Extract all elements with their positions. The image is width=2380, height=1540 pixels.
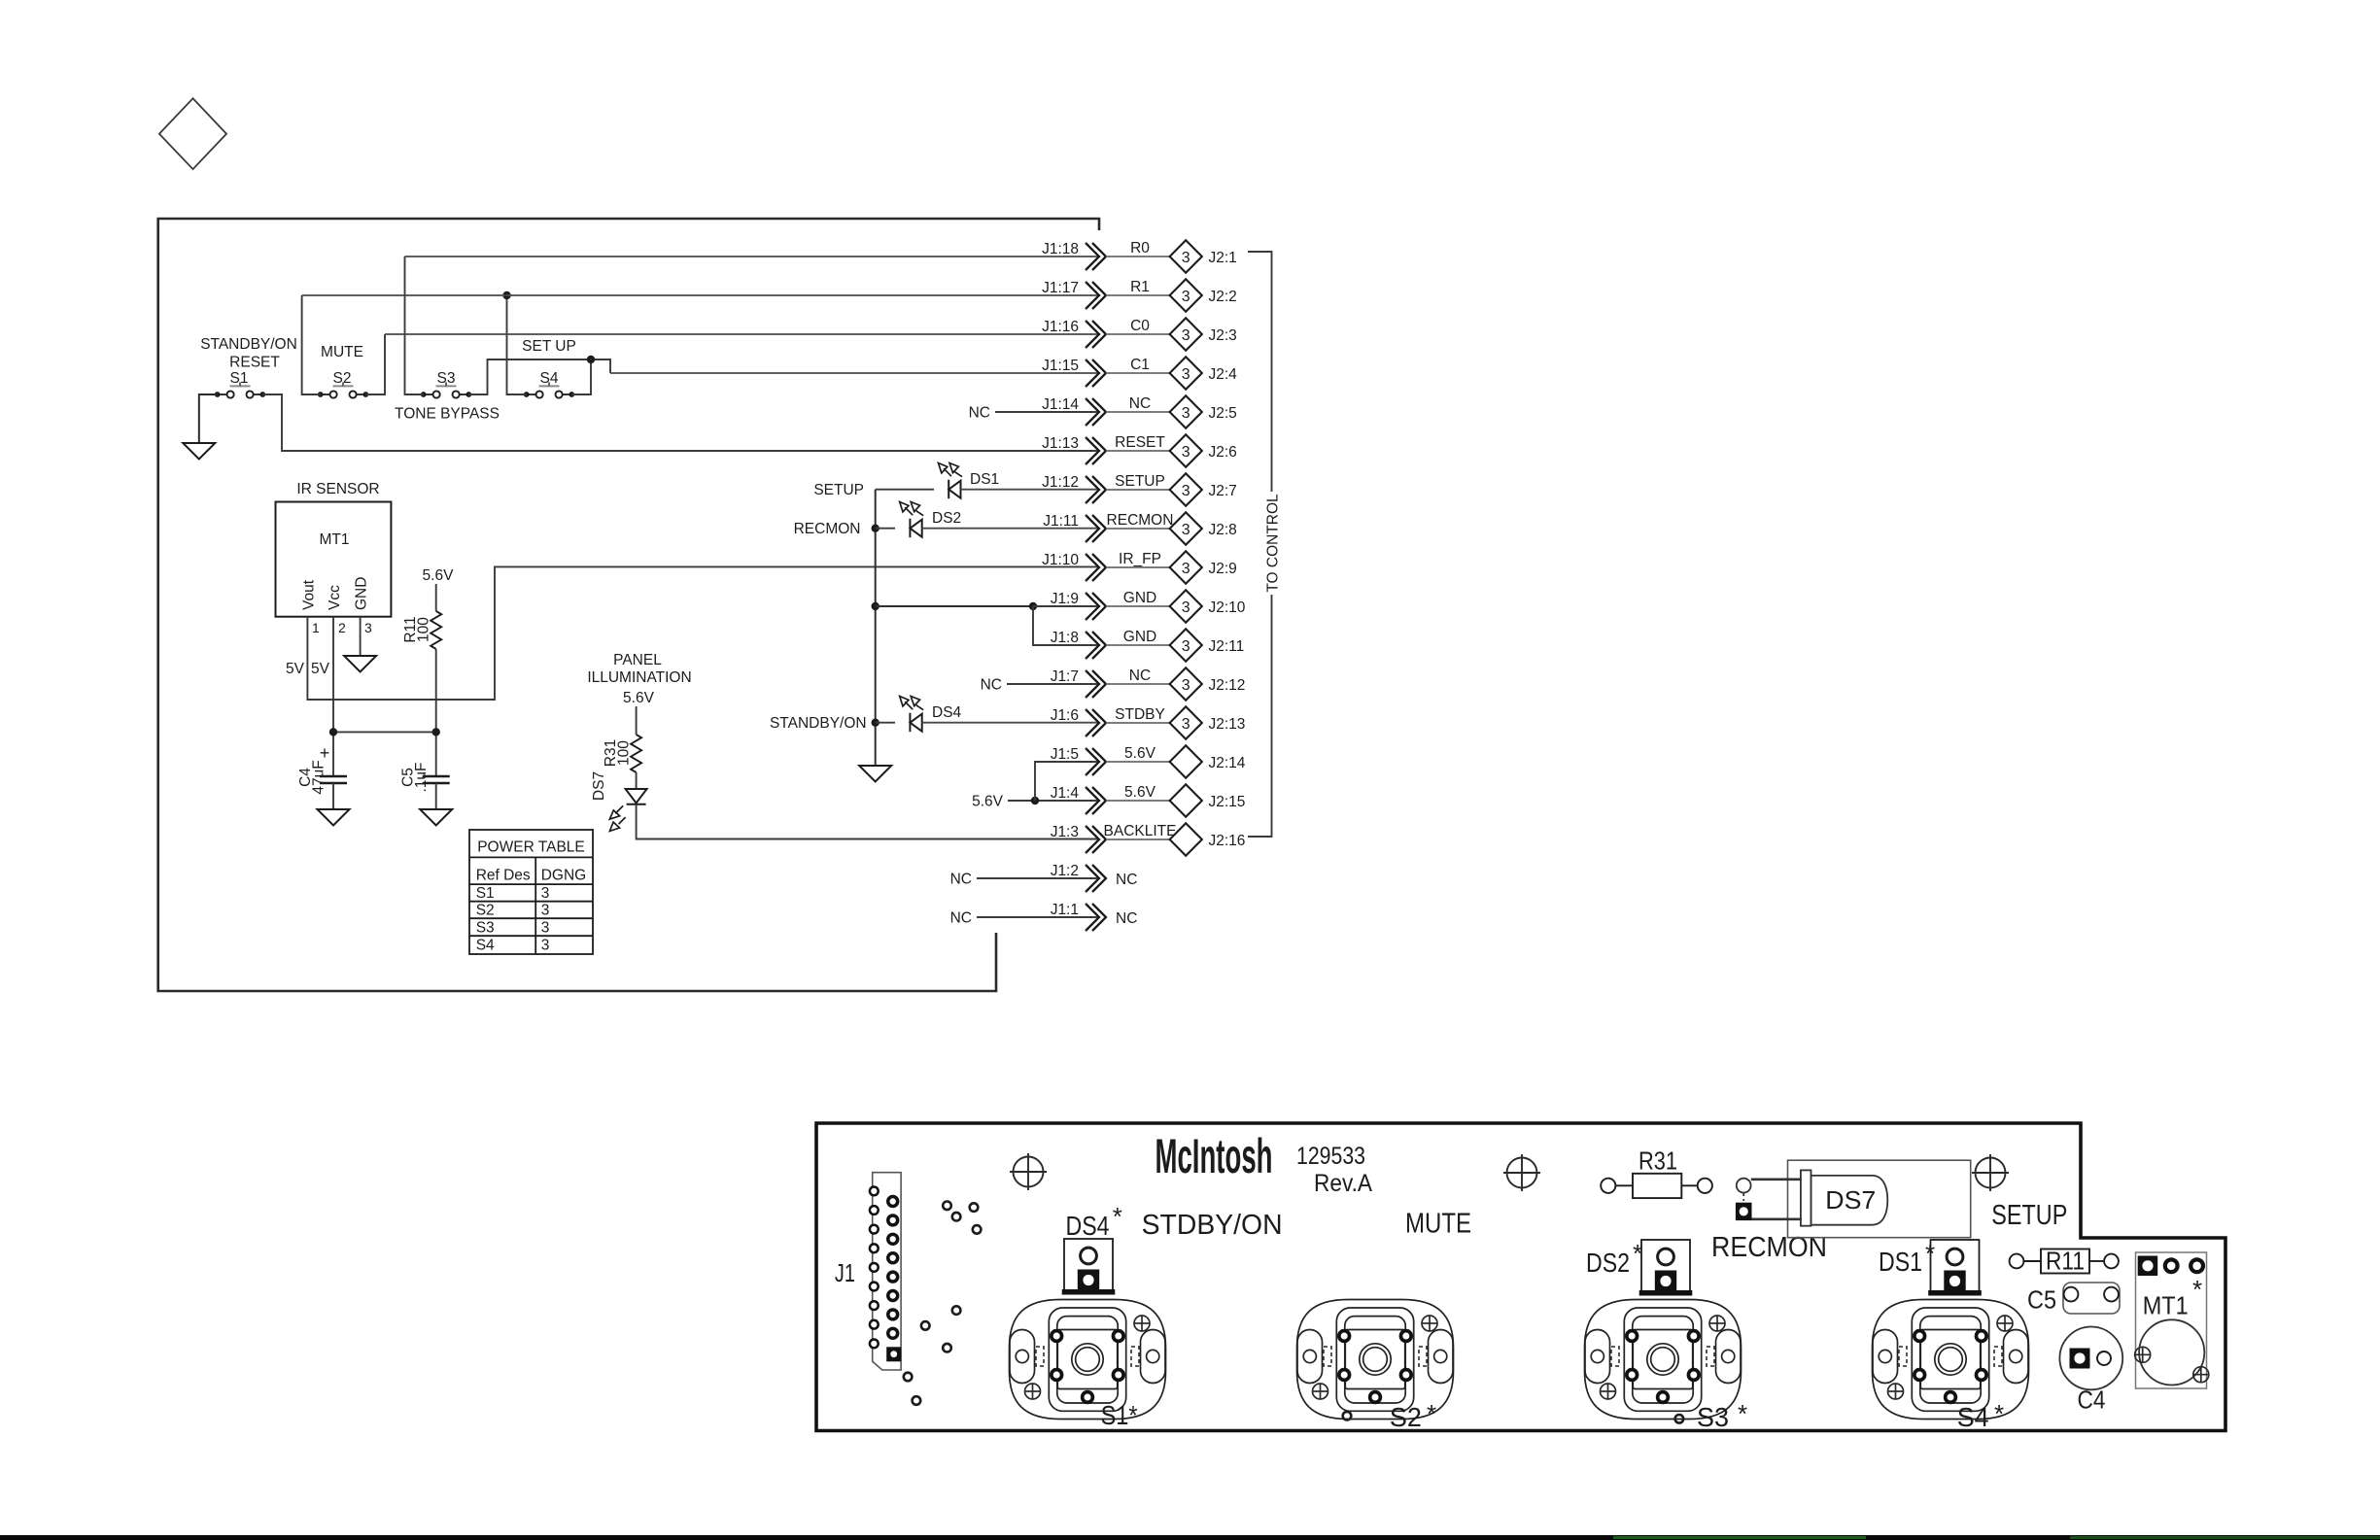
revision diamond — [159, 98, 226, 169]
svg-text:J2:13: J2:13 — [1209, 716, 1246, 733]
svg-text:S1: S1 — [230, 370, 249, 387]
svg-text:R31: R31 — [1638, 1146, 1677, 1175]
LED DS7 footprint — [1788, 1160, 1971, 1238]
svg-text:J1:14: J1:14 — [1042, 396, 1079, 413]
ground of LED bus — [859, 766, 891, 782]
svg-text:J1:15: J1:15 — [1042, 358, 1079, 374]
wire S2 left up to R1 row — [302, 295, 321, 394]
svg-text:S1: S1 — [476, 885, 495, 902]
wire MT1 pin3 GND — [360, 617, 362, 656]
svg-text:Vout: Vout — [301, 579, 318, 610]
svg-text:NC: NC — [950, 872, 972, 888]
svg-text:3: 3 — [541, 885, 550, 902]
svg-text:SETUP: SETUP — [1991, 1200, 2067, 1231]
LED DS4 — [900, 697, 924, 733]
svg-text:J1:18: J1:18 — [1042, 241, 1079, 257]
resistor R31 footprint — [1601, 1174, 1712, 1198]
svg-text:PANEL: PANEL — [613, 652, 662, 668]
svg-text:S3: S3 — [1697, 1402, 1729, 1432]
svg-text:DS1: DS1 — [1879, 1247, 1922, 1277]
svg-text:S4: S4 — [476, 938, 495, 954]
svg-text:MUTE: MUTE — [1405, 1209, 1471, 1240]
svg-text:IR_FP: IR_FP — [1119, 551, 1161, 567]
svg-text:RESET: RESET — [229, 355, 280, 371]
svg-text:STANDBY/ON: STANDBY/ON — [200, 336, 297, 353]
svg-text:DS1: DS1 — [970, 471, 999, 488]
svg-text:DS2: DS2 — [932, 510, 961, 527]
svg-text:RECMON: RECMON — [1711, 1232, 1827, 1263]
junction at R11/C5 — [432, 728, 440, 736]
wire S2 right up to C0 row — [365, 334, 385, 394]
wire C0 row to J1:16 — [385, 333, 1097, 335]
svg-text:DGNG: DGNG — [541, 868, 587, 884]
wire R1 row to J1:17 — [302, 294, 1097, 296]
svg-text:C0: C0 — [1130, 318, 1150, 334]
wire S3 left up to R0 row — [405, 257, 424, 394]
svg-text:DS2: DS2 — [1586, 1248, 1630, 1278]
capacitor C4 47uF — [320, 776, 347, 783]
wire MT1 pin1 Vout to IR_FP — [307, 566, 1097, 700]
svg-text:SETUP: SETUP — [1115, 473, 1165, 490]
svg-text:C1: C1 — [1130, 357, 1150, 373]
wire R11 to junction — [435, 649, 437, 776]
svg-text:J1:12: J1:12 — [1042, 474, 1079, 491]
svg-text:GND: GND — [1123, 629, 1156, 645]
svg-text:NC: NC — [969, 405, 990, 422]
svg-text:3: 3 — [364, 620, 372, 635]
svg-text:MT1: MT1 — [320, 531, 350, 548]
svg-text:MUTE: MUTE — [321, 344, 363, 360]
svg-text:*: * — [1925, 1239, 1935, 1268]
J1 pin-1 square pad — [886, 1347, 901, 1361]
push button S1 — [1010, 1300, 1166, 1420]
svg-text:Rev.A: Rev.A — [1314, 1170, 1372, 1197]
svg-text:J2:9: J2:9 — [1209, 561, 1237, 577]
svg-text:R0: R0 — [1130, 240, 1150, 257]
J1 left pad column — [870, 1187, 879, 1349]
svg-text:100: 100 — [616, 740, 633, 766]
wire S1 right to RESET row — [262, 394, 1097, 451]
wire SETUP corner down the LED bus — [875, 490, 877, 766]
svg-text:BACKLITE: BACKLITE — [1104, 823, 1177, 839]
svg-text:J2:15: J2:15 — [1209, 794, 1246, 810]
svg-text:DS4: DS4 — [932, 704, 962, 721]
svg-text:5.6V: 5.6V — [1124, 784, 1156, 801]
svg-text:GND: GND — [1123, 590, 1156, 606]
svg-text:5.6V: 5.6V — [972, 794, 1004, 810]
svg-text:ILLUMINATION: ILLUMINATION — [587, 669, 691, 686]
svg-text:J1:9: J1:9 — [1051, 591, 1079, 607]
resistor R31 100 — [631, 735, 641, 772]
svg-text:129533: 129533 — [1296, 1143, 1365, 1170]
LED DS1 — [939, 463, 963, 499]
push button S4 — [1873, 1300, 2029, 1420]
svg-text:NC: NC — [1116, 872, 1137, 888]
svg-text:1: 1 — [312, 620, 320, 635]
svg-text:3: 3 — [541, 903, 550, 919]
wire Vcc junction to R11 junction — [333, 731, 436, 733]
junction RECMON — [872, 525, 880, 532]
svg-text:J2:16: J2:16 — [1209, 833, 1246, 849]
svg-text:TONE BYPASS: TONE BYPASS — [395, 406, 500, 423]
svg-text:NC: NC — [1116, 910, 1137, 927]
LED DS7 — [609, 789, 646, 831]
junction GND branch — [1029, 602, 1037, 610]
svg-text:3: 3 — [541, 920, 550, 937]
svg-text:J1:11: J1:11 — [1043, 513, 1079, 530]
svg-text:NC: NC — [1129, 395, 1151, 412]
wire 5.6V to R31 — [636, 706, 638, 735]
svg-text:*: * — [1994, 1399, 2004, 1428]
TO CONTROL bracket — [1248, 252, 1272, 837]
wire C1 row to J1:15 — [610, 372, 1097, 374]
push button S3 — [1585, 1300, 1742, 1420]
wire S1 left to ground — [199, 394, 218, 443]
schematic frame wire — [158, 219, 1099, 991]
wire DS7 to BACKLITE row — [637, 804, 1097, 839]
junction GND row — [872, 602, 880, 610]
svg-text:NC: NC — [950, 910, 972, 927]
LED DS1 package — [1928, 1240, 1982, 1296]
svg-text:+: + — [320, 743, 330, 763]
svg-text:STANDBY/ON: STANDBY/ON — [770, 715, 867, 732]
svg-text:S1*: S1* — [1101, 1400, 1138, 1430]
svg-text:J1:4: J1:4 — [1051, 785, 1080, 802]
wire 5.6V to R11 — [435, 584, 437, 611]
wire MT1 pin2 Vcc down — [332, 617, 334, 776]
svg-text:S2: S2 — [1390, 1402, 1422, 1432]
PCB board outline — [816, 1123, 2225, 1431]
svg-text:Ref Des: Ref Des — [476, 868, 531, 884]
wire S4 right up to SET UP net — [571, 359, 591, 394]
connector J1 outline — [873, 1173, 901, 1370]
svg-text:S4: S4 — [1957, 1402, 1989, 1432]
svg-text:J1:1: J1:1 — [1051, 902, 1079, 918]
svg-text:J2:8: J2:8 — [1209, 522, 1237, 538]
ground at C5 — [420, 809, 452, 826]
svg-text:J2:2: J2:2 — [1209, 289, 1237, 305]
resistor R11 footprint — [2010, 1249, 2119, 1274]
svg-text:*: * — [2192, 1275, 2202, 1304]
scattered vias — [904, 1202, 1683, 1423]
svg-text:J2:5: J2:5 — [1209, 405, 1237, 422]
junction STANDBY/ON — [872, 719, 880, 727]
svg-text:J2:1: J2:1 — [1209, 250, 1237, 266]
svg-text:RECMON: RECMON — [794, 521, 861, 537]
svg-text:J2:3: J2:3 — [1209, 327, 1237, 344]
wire S4 left up to R1 row — [507, 295, 527, 394]
svg-text:RESET: RESET — [1115, 434, 1165, 451]
svg-text:J1:3: J1:3 — [1051, 824, 1079, 840]
J1 right pad column — [886, 1195, 899, 1340]
svg-text:J2:6: J2:6 — [1209, 444, 1237, 461]
svg-text:R11: R11 — [2046, 1247, 2085, 1276]
svg-text:.1uF: .1uF — [413, 762, 430, 792]
svg-text:J2:10: J2:10 — [1209, 599, 1246, 616]
svg-text:J1:17: J1:17 — [1042, 280, 1079, 296]
svg-text:S2: S2 — [476, 903, 495, 919]
push button S2 — [1297, 1300, 1454, 1420]
svg-text:DS7: DS7 — [591, 771, 607, 801]
junction SET UP net — [587, 356, 595, 363]
ground at MT1 pin3 — [344, 656, 376, 672]
svg-text:*: * — [1427, 1399, 1436, 1428]
svg-text:R1: R1 — [1130, 279, 1150, 295]
junction S4 branch on R1 row — [502, 291, 510, 299]
svg-text:J2:12: J2:12 — [1209, 677, 1246, 694]
svg-text:J1: J1 — [835, 1258, 855, 1287]
svg-text:J1:8: J1:8 — [1051, 630, 1079, 646]
svg-text:STDBY: STDBY — [1115, 706, 1165, 723]
svg-text:5.6V: 5.6V — [623, 690, 655, 706]
ground at C4 — [318, 809, 350, 826]
POWER TABLE — [469, 830, 593, 954]
mount hole 2 — [1503, 1154, 1540, 1191]
svg-text:5V: 5V — [311, 661, 330, 677]
svg-text:2: 2 — [338, 620, 346, 635]
svg-text:J1:2: J1:2 — [1051, 863, 1079, 879]
svg-text:S2: S2 — [333, 370, 352, 387]
svg-text:POWER TABLE: POWER TABLE — [477, 839, 585, 856]
mount hole 3 — [1972, 1154, 2009, 1191]
page bottom scan strip — [0, 1535, 2380, 1540]
svg-text:C5: C5 — [2027, 1284, 2056, 1314]
svg-text:IR SENSOR: IR SENSOR — [296, 481, 379, 497]
svg-text:SETUP: SETUP — [813, 482, 864, 498]
svg-text:C4: C4 — [2078, 1386, 2106, 1415]
svg-text:J1:7: J1:7 — [1051, 668, 1079, 685]
svg-text:DS7: DS7 — [1825, 1185, 1876, 1215]
svg-text:S3: S3 — [476, 920, 495, 937]
svg-text:J2:11: J2:11 — [1209, 638, 1245, 655]
ground at S1 — [183, 443, 215, 460]
svg-text:SET UP: SET UP — [522, 338, 576, 355]
svg-text:*: * — [1113, 1202, 1122, 1231]
svg-text:100: 100 — [416, 617, 432, 642]
IR sensor MT1 box — [276, 502, 392, 617]
LED DS2 — [900, 502, 924, 538]
svg-text:J2:14: J2:14 — [1209, 755, 1246, 771]
wire R0 row to J1:18 — [405, 256, 1098, 257]
svg-text:J1:5: J1:5 — [1051, 746, 1079, 763]
wire S3 right up to SET UP net — [468, 359, 610, 394]
svg-text:47uF: 47uF — [311, 760, 328, 794]
LED DS4 package — [1062, 1239, 1116, 1295]
svg-text:J1:13: J1:13 — [1042, 435, 1079, 452]
svg-text:5.6V: 5.6V — [1124, 745, 1156, 762]
svg-text:J2:4: J2:4 — [1209, 366, 1238, 383]
IR sensor MT1 footprint — [2136, 1252, 2207, 1388]
svg-text:3: 3 — [541, 938, 550, 954]
mount hole 1 — [1010, 1153, 1047, 1190]
capacitor C5 footprint — [2063, 1283, 2120, 1314]
svg-text:GND: GND — [354, 577, 370, 610]
svg-text:*: * — [1738, 1399, 1747, 1428]
resistor R11 100 — [431, 611, 441, 649]
junction 5.6V branch — [1031, 797, 1039, 804]
svg-text:RECMON: RECMON — [1107, 512, 1174, 529]
junction at Vcc/C4 — [329, 728, 337, 736]
svg-text:DS4: DS4 — [1066, 1211, 1110, 1241]
svg-text:STDBY/ON: STDBY/ON — [1142, 1210, 1283, 1241]
svg-text:NC: NC — [1129, 667, 1151, 684]
svg-text:MT1: MT1 — [2143, 1290, 2189, 1319]
svg-text:McIntosh: McIntosh — [1156, 1129, 1273, 1183]
svg-text:*: * — [1633, 1239, 1642, 1268]
svg-text:J1:6: J1:6 — [1051, 707, 1079, 724]
svg-text:5.6V: 5.6V — [423, 567, 455, 584]
capacitor C4 footprint — [2059, 1327, 2122, 1390]
svg-text:J1:16: J1:16 — [1042, 319, 1079, 335]
capacitor C5 .1uF — [423, 776, 450, 783]
svg-text:J2:7: J2:7 — [1209, 483, 1237, 499]
svg-text:Vcc: Vcc — [327, 585, 343, 610]
svg-text:J1:10: J1:10 — [1042, 552, 1079, 568]
svg-text:NC: NC — [981, 677, 1002, 694]
wire R31 to DS7 — [636, 772, 638, 789]
svg-text:5V: 5V — [286, 661, 305, 677]
svg-text:TO CONTROL: TO CONTROL — [1265, 494, 1282, 593]
LED DS2 package — [1639, 1240, 1693, 1296]
